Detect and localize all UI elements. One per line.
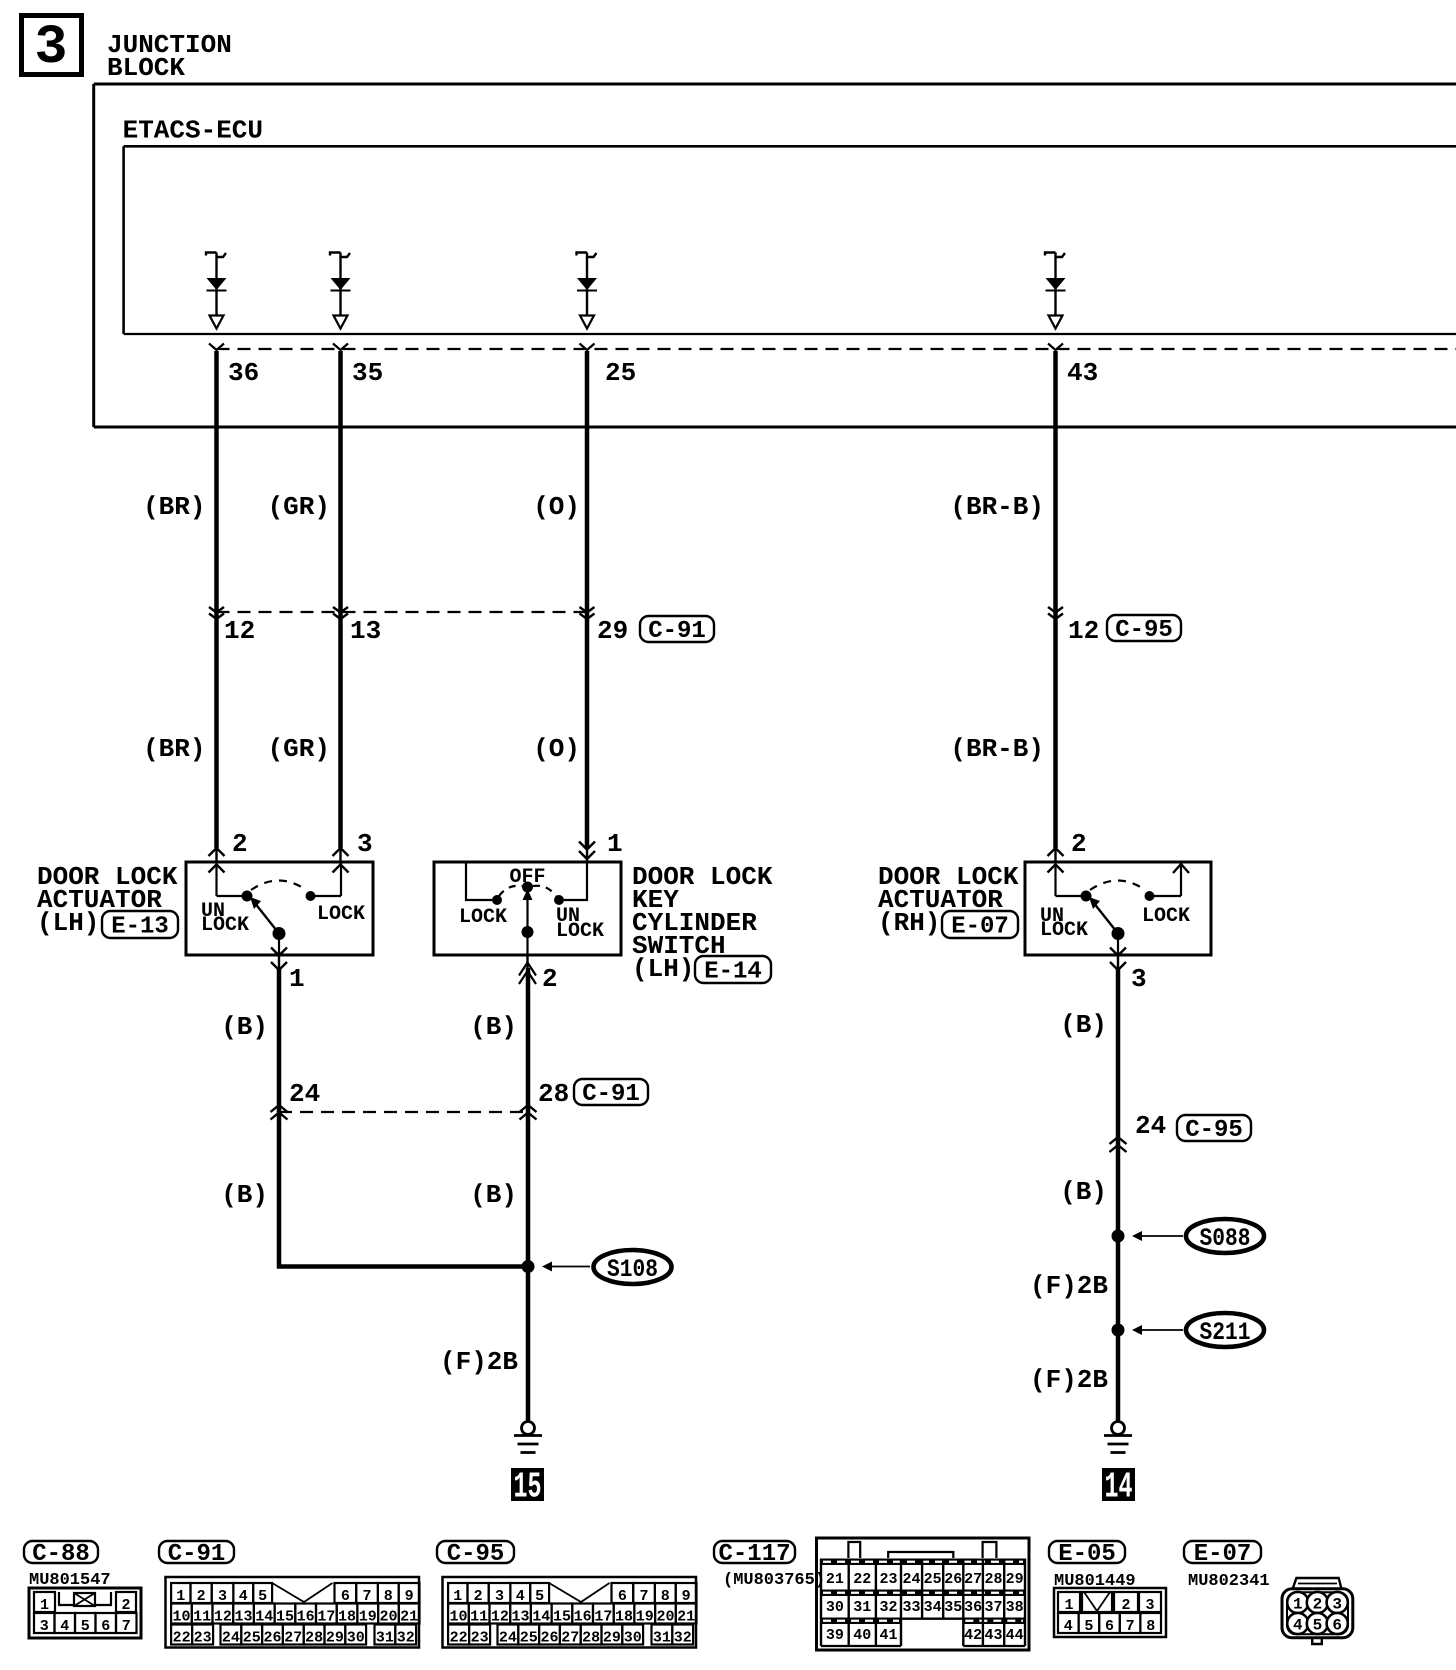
svg-text:C-117: C-117 <box>718 1541 790 1568</box>
svg-text:10: 10 <box>449 1609 467 1626</box>
pass-through marks at C-91 lower <box>271 1105 537 1120</box>
svg-text:3: 3 <box>40 1618 49 1635</box>
svg-text:26: 26 <box>263 1630 281 1647</box>
svg-text:(B): (B) <box>470 1012 517 1042</box>
svg-text:31: 31 <box>853 1599 871 1616</box>
svg-text:36: 36 <box>228 358 259 388</box>
svg-text:33: 33 <box>903 1599 921 1616</box>
diode inside ETACS-ECU above pin (x=340.5) <box>330 253 351 329</box>
svg-text:MU802341: MU802341 <box>1188 1572 1270 1591</box>
svg-text:18: 18 <box>338 1609 356 1626</box>
svg-text:2: 2 <box>1121 1597 1130 1614</box>
junction block connector dashed line <box>217 348 1456 350</box>
svg-text:20: 20 <box>656 1609 674 1626</box>
svg-text:E-14: E-14 <box>704 959 762 986</box>
connector drawing C-117 <box>817 1538 1030 1650</box>
svg-text:7: 7 <box>122 1618 131 1635</box>
svg-text:(O): (O) <box>533 734 580 764</box>
svg-text:23: 23 <box>194 1630 212 1647</box>
svg-text:42: 42 <box>964 1627 982 1644</box>
svg-text:24: 24 <box>289 1079 320 1109</box>
svg-text:OFF: OFF <box>509 866 545 889</box>
svg-text:1: 1 <box>289 964 305 994</box>
svg-text:1: 1 <box>607 829 623 859</box>
svg-text:ETACS-ECU: ETACS-ECU <box>123 116 263 146</box>
entry arrows key cylinder switch pin 1 <box>579 842 595 860</box>
svg-text:E-07: E-07 <box>1194 1541 1252 1568</box>
svg-text:3: 3 <box>1332 1596 1342 1614</box>
svg-text:(F)2B: (F)2B <box>1030 1365 1108 1395</box>
svg-text:11: 11 <box>193 1609 211 1626</box>
pass-through marks at C-95 lower <box>1110 1137 1127 1152</box>
diode inside ETACS-ECU above pin (x=216.5) <box>206 253 227 329</box>
svg-text:1: 1 <box>40 1597 49 1614</box>
svg-text:32: 32 <box>674 1630 692 1647</box>
title JUNCTION BLOCK <box>107 30 232 83</box>
svg-text:1: 1 <box>1293 1596 1303 1614</box>
svg-text:(GR): (GR) <box>268 492 330 522</box>
svg-text:35: 35 <box>944 1599 962 1616</box>
svg-text:19: 19 <box>636 1609 654 1626</box>
exit arrows key cylinder switch pin 2 <box>519 955 536 984</box>
wire 36 to door lock actuator LH pin 2 <box>214 351 219 848</box>
svg-text:C-95: C-95 <box>447 1541 505 1568</box>
splice S088 junction dot <box>1112 1230 1125 1243</box>
svg-text:43: 43 <box>985 1627 1003 1644</box>
svg-text:BLOCK: BLOCK <box>107 53 185 83</box>
svg-text:5: 5 <box>81 1618 90 1635</box>
connector drawing E-07 <box>1282 1578 1353 1644</box>
svg-text:LOCK: LOCK <box>1142 905 1190 928</box>
svg-text:(F)2B: (F)2B <box>440 1347 518 1377</box>
svg-text:13: 13 <box>512 1609 530 1626</box>
svg-text:22: 22 <box>173 1630 191 1647</box>
diode inside ETACS-ECU above pin (x=587) <box>577 253 598 329</box>
connector drawing C-95 <box>443 1577 697 1648</box>
svg-text:(B): (B) <box>221 1012 268 1042</box>
svg-text:43: 43 <box>1067 358 1098 388</box>
svg-text:(B): (B) <box>470 1180 517 1210</box>
svg-text:24: 24 <box>499 1630 517 1647</box>
svg-text:12: 12 <box>1068 616 1099 646</box>
svg-text:11: 11 <box>470 1609 488 1626</box>
ground number 15 <box>511 1467 544 1508</box>
svg-text:2: 2 <box>1071 829 1087 859</box>
svg-text:15: 15 <box>276 1609 294 1626</box>
svg-text:2: 2 <box>232 829 248 859</box>
svg-text:E-13: E-13 <box>111 914 169 941</box>
arrow to S108 <box>548 1266 590 1268</box>
ETACS-ECU box <box>124 146 1456 334</box>
splice label S211 <box>1186 1313 1264 1347</box>
svg-text:21: 21 <box>677 1609 695 1626</box>
connector label C-95 <box>1107 615 1181 641</box>
svg-text:25: 25 <box>243 1630 261 1647</box>
svg-text:29: 29 <box>326 1630 344 1647</box>
svg-text:38: 38 <box>1006 1599 1024 1616</box>
svg-text:22: 22 <box>853 1571 871 1588</box>
svg-text:(GR): (GR) <box>268 734 330 764</box>
connector drawing E-05 <box>1054 1588 1166 1637</box>
svg-text:14: 14 <box>255 1609 273 1626</box>
connector label C-95 bottom <box>437 1541 514 1563</box>
svg-text:22: 22 <box>450 1630 468 1647</box>
svg-text:C-91: C-91 <box>168 1541 226 1568</box>
svg-text:S211: S211 <box>1200 1318 1251 1347</box>
svg-text:3: 3 <box>357 829 373 859</box>
svg-text:29: 29 <box>603 1630 621 1647</box>
svg-text:E-07: E-07 <box>951 914 1009 941</box>
svg-text:14: 14 <box>532 1609 550 1626</box>
svg-text:17: 17 <box>594 1609 612 1626</box>
ground symbol 14 <box>1104 1422 1132 1453</box>
svg-text:31: 31 <box>376 1630 394 1647</box>
svg-text:(B): (B) <box>221 1180 268 1210</box>
svg-text:C-88: C-88 <box>32 1541 90 1568</box>
wire key cylinder pin2 down to ground 15 <box>526 968 531 1422</box>
svg-text:2: 2 <box>1313 1596 1323 1614</box>
connector label E-14 <box>695 956 771 983</box>
junction block outline <box>94 84 1456 427</box>
connector label C-91 <box>640 616 714 642</box>
connector label E-07 inline <box>942 911 1018 938</box>
exit arrows actuator LH pin 1 <box>271 948 287 971</box>
svg-text:(RH): (RH) <box>878 908 940 938</box>
ground number 14 <box>1102 1467 1135 1508</box>
C-91 lower dashed line <box>279 1111 528 1113</box>
svg-text:15: 15 <box>553 1609 571 1626</box>
connector junction marks on dashed line <box>209 344 1063 351</box>
door lock actuator LH box E-13 <box>186 862 373 955</box>
svg-text:13: 13 <box>235 1609 253 1626</box>
svg-text:27: 27 <box>284 1630 302 1647</box>
svg-text:C-91: C-91 <box>582 1081 640 1108</box>
svg-text:(LH): (LH) <box>37 908 99 938</box>
svg-text:(B): (B) <box>1060 1177 1107 1207</box>
splice label S088 <box>1186 1219 1264 1253</box>
svg-text:5: 5 <box>1313 1617 1323 1635</box>
diode inside ETACS-ECU above pin (x=1055.5) <box>1045 253 1066 329</box>
svg-text:4: 4 <box>60 1618 69 1635</box>
svg-text:21: 21 <box>826 1571 844 1588</box>
svg-text:12: 12 <box>224 616 255 646</box>
svg-text:26: 26 <box>540 1630 558 1647</box>
svg-text:28: 28 <box>582 1630 600 1647</box>
splice label S108 <box>594 1250 672 1284</box>
svg-text:6: 6 <box>1332 1617 1342 1635</box>
ground symbol 15 <box>514 1422 542 1453</box>
svg-text:S088: S088 <box>1200 1224 1251 1253</box>
svg-text:25: 25 <box>520 1630 538 1647</box>
svg-text:C-95: C-95 <box>1115 617 1173 644</box>
page number box 3 <box>22 16 82 80</box>
svg-text:14: 14 <box>1105 1467 1133 1508</box>
wire 43 to door lock actuator RH pin 2 <box>1053 351 1058 848</box>
svg-text:30: 30 <box>347 1630 365 1647</box>
entry arrows actuator LH pin 3 <box>333 848 349 873</box>
svg-text:24: 24 <box>222 1630 240 1647</box>
svg-text:LOCK: LOCK <box>201 914 249 937</box>
svg-text:35: 35 <box>352 358 383 388</box>
svg-text:(MU803765): (MU803765) <box>723 1571 825 1590</box>
svg-text:LOCK: LOCK <box>317 903 365 926</box>
arrow to S211 <box>1138 1329 1183 1331</box>
connector label E-07 bottom <box>1184 1541 1261 1563</box>
svg-text:(BR-B): (BR-B) <box>950 492 1044 522</box>
svg-text:4: 4 <box>1293 1617 1303 1635</box>
svg-text:21: 21 <box>400 1609 418 1626</box>
connector drawing C-91 <box>166 1577 420 1648</box>
svg-text:12: 12 <box>214 1609 232 1626</box>
svg-text:3: 3 <box>1131 964 1147 994</box>
svg-text:16: 16 <box>297 1609 315 1626</box>
svg-text:24: 24 <box>903 1571 921 1588</box>
svg-text:19: 19 <box>359 1609 377 1626</box>
actuator LH name text <box>37 862 178 938</box>
entry arrows actuator RH pin 2 <box>1048 848 1064 873</box>
svg-text:(LH): (LH) <box>632 954 694 984</box>
svg-text:3: 3 <box>1145 1597 1154 1614</box>
svg-text:44: 44 <box>1006 1627 1024 1644</box>
svg-text:15: 15 <box>514 1467 542 1508</box>
svg-text:(O): (O) <box>533 492 580 522</box>
svg-text:34: 34 <box>924 1599 942 1616</box>
svg-text:6: 6 <box>101 1618 110 1635</box>
svg-text:40: 40 <box>853 1627 871 1644</box>
svg-text:(BR): (BR) <box>143 734 205 764</box>
svg-text:32: 32 <box>397 1630 415 1647</box>
svg-text:E-05: E-05 <box>1058 1541 1116 1568</box>
svg-text:23: 23 <box>471 1630 489 1647</box>
connector drawing C-88 <box>29 1588 141 1638</box>
svg-text:20: 20 <box>379 1609 397 1626</box>
svg-text:(B): (B) <box>1060 1010 1107 1040</box>
svg-text:30: 30 <box>826 1599 844 1616</box>
svg-text:30: 30 <box>624 1630 642 1647</box>
svg-text:27: 27 <box>964 1571 982 1588</box>
actuator RH name text <box>878 862 1019 938</box>
svg-text:10: 10 <box>172 1609 190 1626</box>
svg-text:32: 32 <box>879 1599 897 1616</box>
svg-text:27: 27 <box>561 1630 579 1647</box>
svg-text:C-91: C-91 <box>648 618 706 645</box>
svg-text:12: 12 <box>491 1609 509 1626</box>
arrow to S088 <box>1138 1235 1183 1237</box>
svg-text:3: 3 <box>34 16 67 79</box>
door lock key cylinder switch box E-14 <box>434 862 621 955</box>
svg-text:13: 13 <box>350 616 381 646</box>
svg-text:(BR): (BR) <box>143 492 205 522</box>
svg-text:29: 29 <box>597 616 628 646</box>
svg-text:36: 36 <box>964 1599 982 1616</box>
svg-text:7: 7 <box>1126 1618 1135 1635</box>
splice S211 junction dot <box>1112 1324 1125 1337</box>
svg-text:8: 8 <box>1146 1618 1155 1635</box>
entry arrows actuator LH pin 2 <box>209 848 225 873</box>
connector label C-117 <box>714 1541 795 1563</box>
svg-text:18: 18 <box>615 1609 633 1626</box>
svg-text:25: 25 <box>605 358 636 388</box>
svg-text:1: 1 <box>1064 1597 1073 1614</box>
svg-text:28: 28 <box>985 1571 1003 1588</box>
svg-text:5: 5 <box>1084 1618 1093 1635</box>
svg-text:16: 16 <box>574 1609 592 1626</box>
svg-text:25: 25 <box>924 1571 942 1588</box>
wire actuator RH pin3 down to ground 14 <box>1116 968 1121 1422</box>
svg-text:LOCK: LOCK <box>1040 919 1088 942</box>
svg-text:S108: S108 <box>607 1255 658 1284</box>
connector C-91 dashed line <box>217 611 588 613</box>
svg-text:37: 37 <box>985 1599 1003 1616</box>
svg-text:2: 2 <box>121 1597 130 1614</box>
connector label C-91 bottom <box>159 1541 234 1563</box>
svg-text:26: 26 <box>944 1571 962 1588</box>
connector label C-95 lower <box>1177 1115 1251 1141</box>
svg-text:LOCK: LOCK <box>459 906 507 929</box>
svg-text:(F)2B: (F)2B <box>1030 1271 1108 1301</box>
svg-text:39: 39 <box>826 1627 844 1644</box>
door lock actuator RH box E-07 <box>1025 862 1211 955</box>
svg-text:(BR-B): (BR-B) <box>950 734 1044 764</box>
connector label C-91 lower <box>574 1079 648 1105</box>
svg-text:31: 31 <box>653 1630 671 1647</box>
connector label E-13 <box>102 911 178 938</box>
svg-text:28: 28 <box>305 1630 323 1647</box>
svg-text:LOCK: LOCK <box>556 920 604 943</box>
wire 35 to door lock actuator LH pin 3 <box>338 351 343 848</box>
connector pass-through marks at C-91 <box>209 607 1063 619</box>
svg-text:4: 4 <box>1064 1618 1073 1635</box>
svg-text:29: 29 <box>1006 1571 1024 1588</box>
wire 25 to key cylinder switch pin 1 <box>585 351 590 849</box>
exit arrows actuator RH pin 3 <box>1110 948 1126 971</box>
connector label C-88 <box>24 1541 98 1563</box>
key cylinder switch name text <box>632 862 773 984</box>
svg-text:41: 41 <box>879 1627 897 1644</box>
svg-text:24: 24 <box>1135 1111 1166 1141</box>
wire actuator LH pin1 down and over to S108 <box>279 968 528 1267</box>
svg-text:17: 17 <box>317 1609 335 1626</box>
svg-text:C-95: C-95 <box>1185 1117 1243 1144</box>
svg-text:6: 6 <box>1105 1618 1114 1635</box>
svg-text:23: 23 <box>879 1571 897 1588</box>
connector label E-05 <box>1049 1541 1125 1563</box>
splice S108 junction dot <box>522 1260 535 1273</box>
svg-text:28: 28 <box>538 1079 569 1109</box>
svg-text:2: 2 <box>542 964 558 994</box>
